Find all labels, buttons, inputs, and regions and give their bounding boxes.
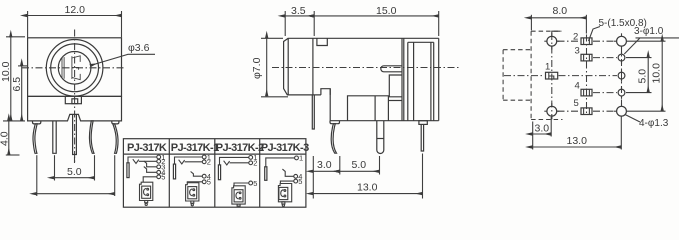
svg-text:2: 2 [207, 158, 211, 167]
svg-text:3-φ1.0: 3-φ1.0 [634, 26, 664, 37]
svg-text:PJ-317K-1: PJ-317K-1 [171, 142, 219, 154]
bottom notch rect [321, 89, 330, 95]
cell2 pin4 circle [202, 174, 206, 178]
cell1 pin3 contact [144, 161, 157, 167]
label 5-(1.5x0.8) [589, 18, 647, 41]
svg-text:PJ-317K-2: PJ-317K-2 [216, 142, 264, 154]
cell1 pin4 contact [144, 167, 157, 173]
column centerline left [551, 33, 553, 119]
dimension 5.0 right [626, 58, 652, 93]
cell4 wire to pin1 [266, 158, 295, 167]
front body outline [28, 38, 122, 121]
phi 3.6 label and leader [90, 42, 155, 66]
svg-text:φ7.0: φ7.0 [251, 57, 263, 79]
flange body [408, 38, 439, 120]
svg-text:5.0: 5.0 [637, 69, 649, 84]
front horizontal centerline [22, 67, 126, 69]
hole A top-left [544, 31, 560, 49]
cell4 pin4 contact [282, 169, 293, 176]
dimension 12.0 [28, 4, 122, 38]
leg1 bent wire [33, 124, 37, 153]
column centerline right [621, 46, 623, 108]
leg5 stub [112, 121, 119, 124]
svg-text:5: 5 [574, 98, 579, 109]
side pin A under barrel [312, 95, 314, 129]
cell1 jack symbol [140, 182, 153, 205]
side pin C [377, 121, 384, 154]
top notch [317, 38, 327, 45]
cell1 pin1 circle [157, 155, 161, 159]
dimension 10.0 right [627, 41, 666, 111]
contact box left of wall [389, 75, 402, 97]
cell 2 schematic PJ-317K-1 [173, 153, 210, 206]
cell2 pin2 circle [202, 160, 206, 164]
cell1 wire pin5 [143, 177, 157, 182]
cell3 pin2 circle [249, 161, 253, 165]
row centerline 3 [504, 75, 617, 77]
cell1 wire pin2 [139, 160, 157, 162]
cell2 tip bar [173, 164, 175, 179]
svg-text:5.0: 5.0 [352, 159, 367, 171]
svg-text:13.0: 13.0 [567, 135, 588, 147]
leg3 center pin [73, 114, 77, 154]
cell2 pin1 circle [202, 155, 206, 159]
svg-text:4.0: 4.0 [0, 131, 11, 146]
dashed body outline [531, 31, 562, 119]
leg2 straight pin [53, 121, 56, 153]
svg-text:1: 1 [545, 62, 550, 73]
dimension 5.0 front [55, 166, 95, 178]
cell3 tip bar [218, 165, 220, 180]
pad 4 [581, 89, 592, 96]
cell4 jack symbol [278, 184, 291, 207]
row centerline 2 [593, 57, 617, 59]
cell1 wire to pin1 [128, 157, 157, 163]
svg-text:3: 3 [575, 46, 580, 57]
dimension 8.0 [531, 5, 586, 33]
cell1 tip bar [127, 163, 129, 178]
dimension 3.0 right [533, 117, 552, 150]
side body barrel outline [284, 38, 439, 95]
cell3 jack symbol [232, 186, 245, 206]
svg-text:5: 5 [207, 178, 211, 187]
cell 3 schematic PJ-317K-2 [218, 153, 257, 206]
pad 5 [581, 108, 592, 115]
front vertical centerline [74, 30, 76, 164]
cell 1 schematic PJ-317K [127, 153, 165, 206]
svg-text:4-φ1.3: 4-φ1.3 [639, 118, 669, 129]
row centerline 5 [558, 110, 616, 112]
svg-text:8.0: 8.0 [553, 5, 568, 17]
body seam line [28, 95, 122, 97]
svg-text:10.0: 10.0 [651, 63, 663, 84]
cell2 wire pin2 [185, 161, 203, 163]
label 3-phi1.0 [624, 26, 679, 54]
cell2 wire pin5 [187, 181, 202, 184]
svg-text:4: 4 [575, 81, 580, 92]
hole small E [618, 70, 625, 82]
cell2 pin5 circle [202, 180, 206, 184]
dashed barrel outline [503, 50, 531, 100]
row centerline 1 [558, 40, 616, 42]
dimension 13.0 side [313, 182, 422, 194]
cell4 pin5 circle [294, 179, 298, 183]
cell4 tip bar [265, 167, 267, 181]
hole small D [618, 52, 625, 64]
column centerline pads [586, 35, 588, 116]
inner contact shape [62, 56, 80, 80]
svg-text:PJ-317K-3: PJ-317K-3 [261, 142, 309, 154]
small step line [388, 100, 402, 102]
cell2 switch check [179, 160, 185, 164]
hole small F [618, 87, 625, 99]
hole B bottom-left [544, 103, 559, 119]
keyway inner rect [72, 99, 78, 104]
svg-text:1: 1 [299, 154, 303, 163]
cell4 pin1 circle [295, 156, 299, 160]
cell2 pin4 contact [191, 172, 203, 177]
svg-text:3.0: 3.0 [535, 123, 550, 135]
dimension 10.0 left [0, 37, 25, 121]
cell1 pin3 circle [157, 165, 161, 169]
side pin D wire [421, 124, 423, 151]
side leg B bent wire [331, 124, 336, 154]
jack hole circle [58, 52, 91, 85]
dimension 5.0 side [340, 159, 380, 171]
cell2 jack symbol [186, 183, 199, 206]
cell3 switch check [224, 161, 230, 165]
dimension 3.5 / 15.0 top [285, 5, 439, 36]
dimension 3.0 side [313, 159, 340, 171]
svg-text:2: 2 [253, 159, 257, 168]
leg4 crank wire [89, 121, 94, 153]
pad 1 [546, 72, 558, 79]
cell1 pin2 circle [157, 159, 161, 163]
svg-text:13.0: 13.0 [357, 182, 378, 194]
barrel seam vertical [312, 38, 314, 95]
label 4-phi1.3 [625, 114, 669, 129]
leg5 bent wire [113, 124, 118, 153]
svg-text:5: 5 [298, 177, 302, 186]
hole C right top [614, 33, 626, 49]
cell1 pin4 circle [157, 170, 161, 174]
keyway rect below circle [65, 96, 81, 103]
svg-text:12.0: 12.0 [65, 4, 86, 16]
hole G right bottom [614, 103, 626, 116]
cell4 wire pin5 [280, 181, 293, 183]
cell3 wire pin5 [234, 183, 249, 186]
svg-text:5: 5 [161, 173, 165, 182]
svg-text:φ3.6: φ3.6 [128, 42, 150, 54]
cell2 wire to pin1 [175, 157, 203, 164]
housing lower outline [330, 89, 439, 121]
cell1 switch check [133, 159, 139, 163]
svg-text:3.0: 3.0 [317, 159, 332, 171]
svg-text:6.5: 6.5 [11, 77, 23, 92]
dimension phi 7.0 [251, 38, 288, 97]
row centerline 4 [593, 92, 617, 94]
cell 4 schematic PJ-317K-3 [265, 154, 303, 207]
pad 2 [581, 38, 592, 45]
svg-text:5: 5 [253, 179, 257, 188]
svg-text:15.0: 15.0 [376, 5, 397, 17]
cell4 pin4 circle [294, 174, 298, 178]
dimension 6.5 left [11, 66, 27, 121]
side pin D stub [419, 121, 427, 125]
side leg B stub [330, 121, 340, 124]
side centerline [272, 67, 460, 69]
table grid [123, 139, 306, 208]
svg-text:5.0: 5.0 [67, 166, 82, 178]
terminal box interior [348, 96, 389, 121]
pad 3 [581, 54, 592, 61]
dimension 13.0 right [533, 117, 622, 150]
dimension 4.0 left [0, 121, 20, 155]
side bottom extension lines [313, 154, 422, 199]
ring circle [51, 44, 99, 92]
svg-text:2: 2 [573, 32, 578, 43]
leg1 stub [33, 121, 41, 124]
unlabeled bottom dimension front [37, 193, 115, 195]
front bottom extension lines [37, 155, 115, 196]
table headers [127, 142, 309, 154]
cell3 wire to pin1 [220, 157, 249, 165]
switch slot [381, 66, 402, 72]
flange wall double line [402, 38, 404, 120]
svg-text:3.5: 3.5 [291, 5, 306, 17]
cell3 pin1 circle [249, 156, 253, 160]
cell3 pin5 circle [249, 181, 253, 185]
cell1 pin5 circle [157, 175, 161, 179]
outer circle [46, 40, 103, 97]
cell3 wire pin2 [230, 162, 249, 164]
